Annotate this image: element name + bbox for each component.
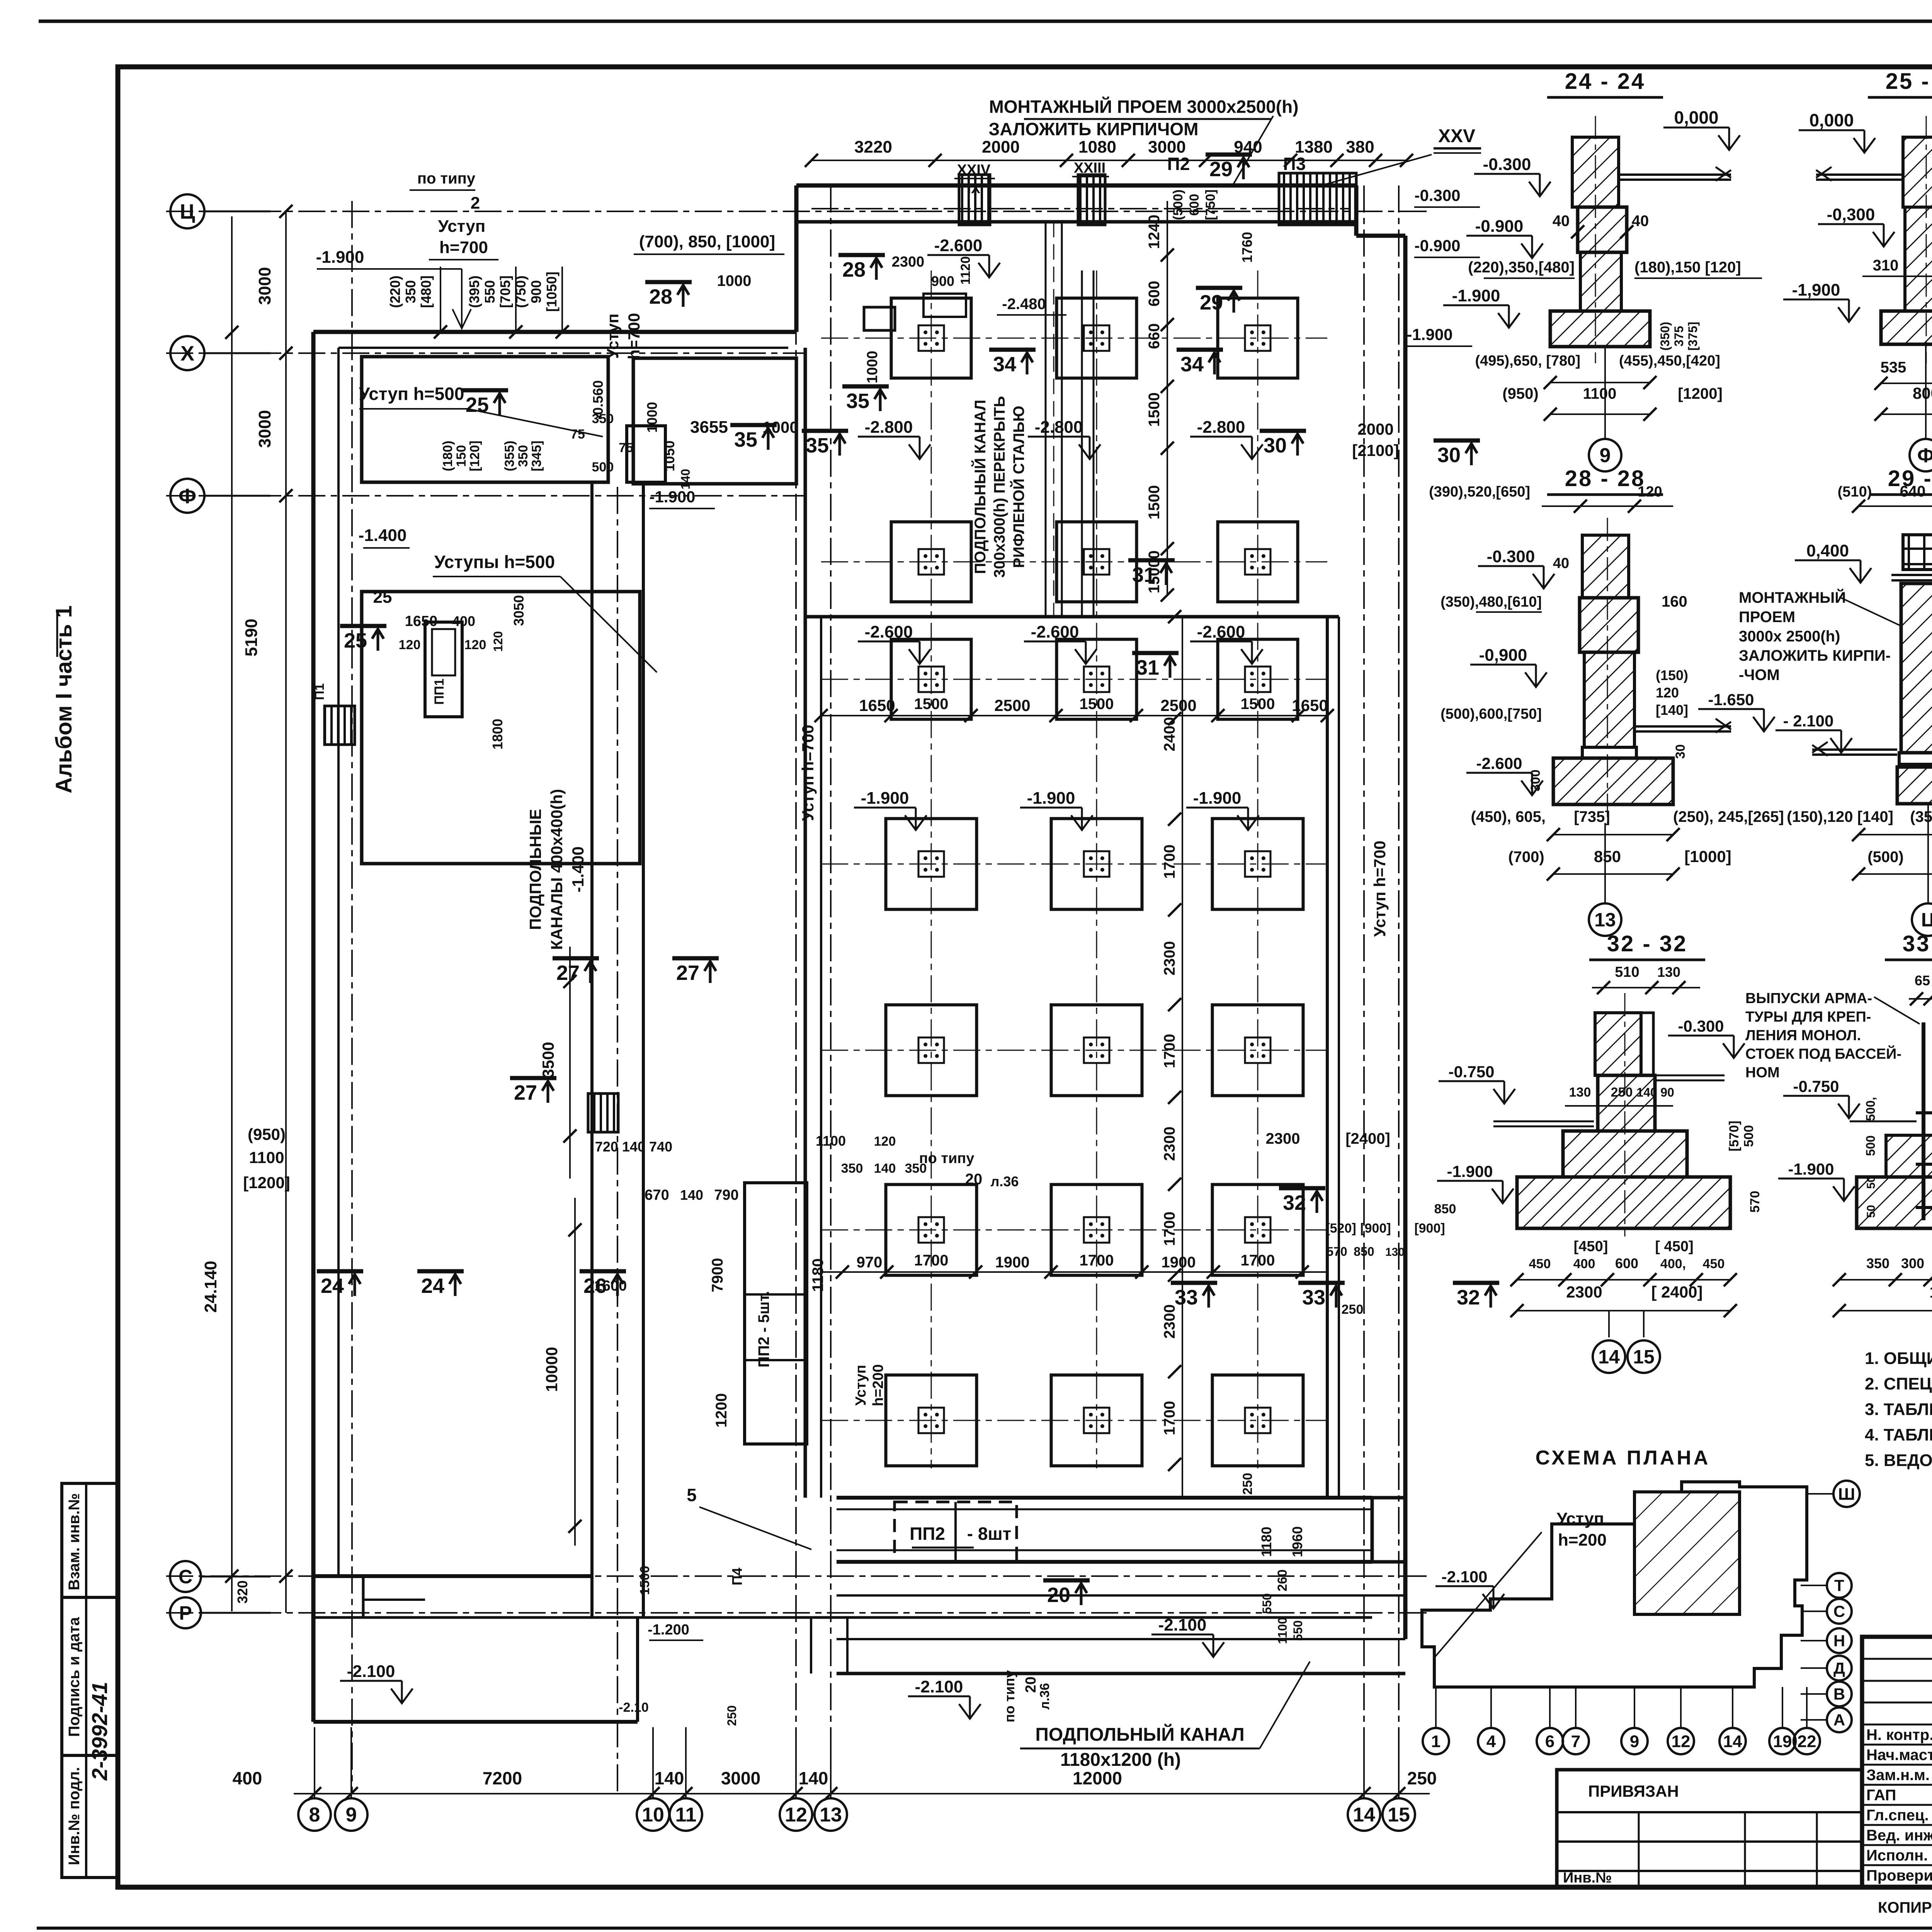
svg-text:МОНТАЖНЫЙ: МОНТАЖНЫЙ [1739,588,1846,606]
svg-text:(500): (500) [1171,189,1185,220]
svg-text:7200: 7200 [483,1768,522,1788]
svg-text:[375]: [375] [1686,322,1700,351]
svg-text:[570]: [570] [1727,1121,1742,1151]
svg-text:1700: 1700 [1929,1283,1932,1301]
s24 stem [1580,252,1621,311]
svg-text:(950): (950) [248,1125,286,1143]
svg-text:120: 120 [491,631,505,651]
svg-text:РИФЛЕНОЙ СТАЛЬЮ: РИФЛЕНОЙ СТАЛЬЮ [1010,406,1027,568]
column footing row 5 col 3 [1213,1005,1303,1096]
svg-text:900: 900 [931,273,954,289]
svg-text:-0.560: -0.560 [590,380,606,420]
svg-text:С: С [179,1566,192,1588]
section mark 25 [340,626,386,652]
schema axis circle 6 [1537,1728,1563,1754]
column footing row 7 col 3 [1213,1375,1303,1466]
svg-text:28: 28 [649,285,672,308]
svg-text:Нач.маст.: Нач.маст. [1866,1747,1932,1764]
svg-text:400,: 400, [1660,1257,1686,1271]
svg-text:[1200]: [1200] [243,1173,290,1192]
svg-text:ПОДПОЛЬНЫЙ КАНАЛ: ПОДПОЛЬНЫЙ КАНАЛ [1035,1724,1244,1745]
axis circle С [170,1561,201,1592]
section mark 20 [1043,1580,1090,1607]
PP2-8sht block [895,1502,1017,1562]
axis circle 9 [335,1798,367,1831]
svg-text:535: 535 [1881,359,1906,376]
s25 wall upper [1903,137,1932,207]
column footing row 1 col 1 [891,298,971,378]
svg-text:2: 2 [471,194,480,213]
svg-text:600: 600 [1615,1255,1638,1271]
svg-text:1650: 1650 [405,613,438,629]
svg-text:(180),150 [120]: (180),150 [120] [1634,259,1741,276]
svg-text:40: 40 [1553,213,1570,230]
svg-text:Альбом I часть 1: Альбом I часть 1 [51,605,77,794]
axis circle 8 [298,1798,331,1831]
svg-text:250: 250 [1240,1473,1255,1495]
svg-text:1700: 1700 [914,1252,949,1269]
s29 big wall [1901,583,1932,753]
svg-text:250: 250 [1611,1085,1633,1100]
s32 pier [1598,1075,1655,1131]
svg-text:В: В [1833,1685,1845,1703]
svg-text:А: А [1833,1711,1845,1729]
schema axis circle 1 [1423,1728,1449,1754]
svg-text:Н. контр.: Н. контр. [1866,1726,1932,1743]
svg-text:850: 850 [1354,1245,1374,1259]
schema axis circle 19 [1769,1728,1796,1754]
schema plana hatched block [1634,1492,1740,1614]
svg-text:1900: 1900 [1162,1254,1196,1271]
corridor walls [590,483,594,1617]
axis circle 12 [780,1798,812,1831]
svg-text:Инв.№ подл.: Инв.№ подл. [66,1767,83,1865]
column footing row 2 col 3 [1218,522,1298,602]
svg-text:1240: 1240 [1146,215,1163,249]
svg-text:140: 140 [680,1187,703,1203]
svg-text:(450), 605,: (450), 605, [1471,808,1546,825]
svg-text:Ц: Ц [1921,909,1932,931]
svg-text:h=700: h=700 [439,238,488,257]
svg-text:(390),520,[650]: (390),520,[650] [1429,484,1530,500]
svg-text:150: 150 [454,445,469,467]
schema plana outline [1422,1482,1807,1687]
section mark 27 [553,958,599,985]
svg-text:15: 15 [1388,1804,1410,1826]
column footing row 4 col 2 [1051,819,1142,910]
svg-text:П3: П3 [1283,154,1306,174]
svg-text:0,400: 0,400 [1806,541,1849,560]
svg-text:550: 550 [482,280,498,303]
svg-text:40: 40 [1553,555,1569,571]
svg-text:-1.900: -1.900 [1193,789,1242,808]
section mark 26 [580,1271,626,1298]
svg-text:450: 450 [1529,1257,1551,1271]
svg-text:4. ТАБЛИЦУ ОТВ. СМ. Л. 34-36: 4. ТАБЛИЦУ ОТВ. СМ. Л. 34-36 [1865,1425,1932,1444]
axis circle Ц [170,194,204,228]
schema axis circle Т [1827,1573,1852,1598]
svg-text:3655: 3655 [690,418,728,437]
svg-text:500,: 500, [1864,1097,1878,1121]
svg-text:50: 50 [1865,1176,1878,1189]
sheet top trim line [39,20,1932,23]
column footing row 5 col 2 [1051,1005,1142,1096]
svg-text:-1.900: -1.900 [1452,286,1500,305]
svg-text:1200: 1200 [713,1393,730,1428]
svg-text:2300: 2300 [892,254,925,270]
svg-text:310: 310 [1873,257,1899,274]
section mark 33 [1298,1283,1345,1309]
svg-text:10: 10 [642,1804,664,1826]
svg-text:28 - 28: 28 - 28 [1565,466,1646,491]
svg-text:МОНТАЖНЫЙ ПРОЕМ 3000х2500(h): МОНТАЖНЫЙ ПРОЕМ 3000х2500(h) [989,97,1298,117]
svg-text:600: 600 [1146,281,1163,307]
column footing row 3 col 3 [1218,639,1298,719]
svg-text:160: 160 [1662,593,1687,610]
svg-text:27: 27 [514,1081,537,1104]
section mark 31 [1132,653,1179,679]
svg-text:1500: 1500 [1241,696,1275,713]
svg-text:2300: 2300 [1161,941,1178,976]
svg-text:h=200: h=200 [870,1364,886,1406]
column footing row 3 col 2 [1057,639,1137,719]
svg-text:2300: 2300 [1161,1304,1178,1339]
svg-text:1050: 1050 [662,440,677,471]
section mark 32 [1453,1283,1499,1309]
section mark 27 [672,958,719,985]
svg-text:3500: 3500 [539,1042,557,1078]
svg-text:-1.650: -1.650 [1708,690,1754,709]
svg-text:-0.900: -0.900 [1414,236,1460,255]
svg-text:h=200: h=200 [1558,1531,1607,1549]
svg-text:50: 50 [1865,1205,1878,1218]
svg-text:XXIII: XXIII [1074,160,1105,176]
svg-text:1120: 1120 [958,256,973,285]
svg-text:120: 120 [874,1134,896,1149]
svg-text:35: 35 [846,389,869,413]
sidebar stamp boxes [62,1483,119,1878]
svg-text:3. ТАБЛИЦУ РАСЧЕТНЫХ НАГРУЗОК: 3. ТАБЛИЦУ РАСЧЕТНЫХ НАГРУЗОК СМ.Л.39 [1865,1400,1932,1419]
svg-text:5190: 5190 [242,619,261,656]
axis circle 10 [637,1798,669,1831]
svg-text:34: 34 [993,353,1016,376]
schema axis circle В [1827,1682,1852,1706]
svg-text:25 - 25: 25 - 25 [1886,69,1932,94]
svg-text:2300: 2300 [1266,1130,1300,1147]
svg-text:XXIV: XXIV [957,162,991,178]
column footing row 3 col 1 [891,639,971,719]
svg-text:35: 35 [734,428,757,451]
svg-text:СХЕМА ПЛАНА: СХЕМА ПЛАНА [1536,1447,1711,1469]
axis circle 14 [1348,1798,1380,1831]
svg-text:25: 25 [344,629,367,652]
svg-text:90: 90 [1660,1085,1674,1099]
svg-text:640: 640 [1900,483,1926,500]
svg-text:300: 300 [1901,1255,1924,1271]
svg-text:[900]: [900] [1360,1221,1391,1236]
svg-text:-0.750: -0.750 [1793,1077,1839,1095]
svg-text:3050: 3050 [511,595,527,626]
svg-text:550: 550 [1291,1620,1305,1641]
svg-text:24.140: 24.140 [201,1261,220,1313]
svg-text:350: 350 [516,445,531,467]
svg-text:Подпись и дата: Подпись и дата [66,1617,83,1737]
PP1 element [425,622,462,717]
svg-text:850: 850 [1594,847,1621,866]
svg-text:9: 9 [1600,444,1611,467]
svg-text:Уступ h=700: Уступ h=700 [1371,840,1389,937]
schema axis circle 22 [1794,1728,1820,1754]
svg-text:2300: 2300 [1566,1283,1602,1301]
svg-text:5. ВЕДОМОСТЬ ПЕРЕМЫЧЕК СМ. Л.: 5. ВЕДОМОСТЬ ПЕРЕМЫЧЕК СМ. Л. 39 [1865,1451,1932,1470]
svg-text:1180: 1180 [810,1259,827,1292]
svg-text:(150),120 [140]: (150),120 [140] [1787,808,1893,825]
s25 stem [1905,207,1932,311]
svg-text:(500): (500) [1867,849,1903,866]
bottom trim line [37,1927,1932,1930]
svg-text:-2.600: -2.600 [1476,754,1522,772]
svg-text:33: 33 [1302,1286,1325,1309]
svg-text:12: 12 [785,1804,807,1826]
schema axis circle Н [1827,1628,1852,1653]
svg-text:[140]: [140] [1656,702,1688,718]
svg-text:(220): (220) [387,276,403,308]
svg-text:30: 30 [1673,744,1688,759]
svg-text:550: 550 [1260,1593,1274,1614]
svg-text:[2100]: [2100] [1352,441,1399,459]
svg-text:2000: 2000 [982,138,1020,156]
svg-text:20: 20 [965,1171,983,1188]
svg-text:(950): (950) [1502,385,1538,402]
section mark 27 [510,1078,556,1104]
svg-text:19: 19 [1773,1732,1792,1751]
svg-text:400: 400 [233,1768,262,1788]
s33 rebar pins [1922,1022,1925,1220]
svg-text:С: С [1833,1602,1845,1621]
svg-text:25: 25 [373,588,392,607]
schema axis circle 9 [1621,1728,1648,1754]
svg-text:-1.900: -1.900 [1788,1160,1834,1178]
svg-text:Р: Р [179,1602,192,1624]
svg-text:1900: 1900 [995,1254,1030,1271]
axis circle Р [170,1597,201,1628]
svg-text:1960: 1960 [1289,1526,1305,1557]
svg-text:1500: 1500 [914,696,949,713]
s32 step [1563,1131,1687,1177]
column footing row 6 col 2 [1051,1185,1142,1276]
svg-text:1000: 1000 [864,351,881,384]
lower canal walls [837,1638,1405,1640]
svg-text:1650: 1650 [1292,696,1328,714]
svg-text:1000: 1000 [644,402,660,433]
s28 plate [1582,747,1636,758]
axis lines horizontal [166,211,1430,212]
column footing row 6 col 3 [1213,1185,1303,1276]
svg-text:1700: 1700 [1080,1252,1114,1269]
svg-text:-0.900: -0.900 [1475,217,1524,236]
svg-text:32 - 32: 32 - 32 [1607,931,1688,956]
svg-text:570: 570 [1327,1245,1347,1259]
svg-text:-2.800: -2.800 [1035,418,1083,437]
svg-text:Исполн.: Исполн. [1866,1847,1928,1864]
svg-text:Уступ: Уступ [853,1365,869,1406]
middle vertical canal lines [1045,222,1047,617]
svg-text:7: 7 [1571,1732,1580,1751]
svg-text:13: 13 [820,1804,842,1826]
svg-text:Уступ h=500: Уступ h=500 [359,384,464,404]
svg-text:-0.300: -0.300 [1487,547,1535,566]
s24 wall upper [1572,137,1619,207]
svg-text:-1.900: -1.900 [1447,1162,1493,1180]
bottom dimension chain [294,1793,1430,1794]
svg-text:570: 570 [1748,1191,1762,1213]
svg-text:32: 32 [1457,1286,1480,1309]
small shaft -0.560 [627,426,665,482]
opening XXI hatched [325,706,355,745]
svg-text:[1050]: [1050] [544,272,560,312]
svg-text:Уступ: Уступ [1557,1509,1604,1528]
svg-text:(510): (510) [1838,484,1872,500]
svg-text:-0,900: -0,900 [1479,646,1527,665]
openings in top wall [959,175,990,225]
svg-text:24: 24 [321,1274,344,1298]
svg-text:Ц: Ц [180,200,195,223]
svg-text:5: 5 [687,1485,697,1505]
svg-text:Д: Д [1833,1659,1845,1677]
svg-text:-1.900: -1.900 [1027,789,1075,808]
title block outer [1862,1637,1932,1887]
svg-text:1700: 1700 [1161,1034,1178,1068]
section mark 33 [1171,1283,1217,1309]
section mark 32 [1279,1188,1325,1214]
svg-text:-2.600: -2.600 [934,236,983,255]
middle block right wall [1326,617,1329,1498]
schema axis circle С [1827,1599,1852,1624]
svg-text:1700: 1700 [1241,1252,1275,1269]
svg-text:500: 500 [1864,1135,1878,1156]
svg-text:2-3992-41: 2-3992-41 [87,1682,112,1781]
s33 footing upper [1886,1135,1932,1177]
svg-text:1760: 1760 [1239,232,1255,263]
svg-text:320: 320 [235,1580,250,1604]
svg-text:14: 14 [1723,1732,1742,1751]
svg-text:Уступ h=700: Уступ h=700 [799,724,817,821]
axis circle 13 [815,1798,847,1831]
svg-text:-0.300: -0.300 [1483,155,1531,174]
svg-text:[1000]: [1000] [1684,847,1731,866]
svg-text:660: 660 [1146,323,1163,349]
section mark 35 [802,431,848,457]
section mark 31 [1128,560,1175,587]
s24 footing slab [1550,311,1650,347]
svg-text:9: 9 [346,1804,357,1826]
svg-text:[480]: [480] [418,276,434,308]
opening XXII hatched [588,1094,618,1132]
svg-text:27: 27 [556,961,580,985]
svg-text:-2.100: -2.100 [1158,1616,1207,1634]
svg-text:-2.100: -2.100 [347,1662,395,1681]
svg-text:л.36: л.36 [1037,1683,1052,1710]
svg-text:СТОЕК ПОД БАССЕЙ-: СТОЕК ПОД БАССЕЙ- [1745,1045,1901,1062]
svg-text:1500: 1500 [1146,393,1163,427]
svg-text:-2.100: -2.100 [1441,1568,1487,1586]
svg-text:33 - 33: 33 - 33 [1903,931,1932,956]
svg-text:40: 40 [1632,213,1649,230]
middle block top wall [805,615,1339,619]
svg-text:26: 26 [583,1274,607,1298]
svg-text:ГАП: ГАП [1866,1787,1896,1804]
svg-text:12: 12 [1672,1732,1690,1751]
svg-text:(220),350,[480]: (220),350,[480] [1468,259,1575,276]
svg-text:3000: 3000 [255,410,274,448]
svg-text:24 - 24: 24 - 24 [1565,69,1646,94]
section mark 34 [989,350,1036,376]
privyazan block [1557,1770,1862,1887]
upper-left rooms [362,357,608,482]
svg-text:(500),600,[750]: (500),600,[750] [1440,706,1542,722]
svg-text:-1.400: -1.400 [569,846,587,892]
svg-text:Зам.н.м.: Зам.н.м. [1866,1767,1930,1784]
title block left grid [1862,1658,1932,1660]
svg-text:Ш: Ш [1838,1485,1855,1503]
svg-text:250: 250 [1407,1768,1437,1788]
svg-text:7900: 7900 [709,1258,726,1293]
svg-text:14: 14 [1598,1346,1620,1368]
s24 pier [1578,207,1627,252]
leader lines from усту labels [468,409,603,437]
svg-text:140: 140 [874,1161,896,1176]
section mark 24 [417,1271,464,1298]
svg-text:300: 300 [1528,770,1543,792]
svg-text:3000х 2500(h): 3000х 2500(h) [1739,628,1840,645]
svg-text:140: 140 [1636,1085,1657,1099]
svg-text:(700), 850, [1000]: (700), 850, [1000] [639,232,775,251]
svg-text:ПРОЕМ: ПРОЕМ [1739,609,1795,626]
svg-text:Проверил: Проверил [1866,1867,1932,1884]
section mark 30 [1260,431,1306,457]
svg-text:П1: П1 [312,683,327,700]
svg-text:350: 350 [403,280,418,303]
svg-text:-0.300: -0.300 [1414,186,1460,204]
svg-text:ТУРЫ ДЛЯ КРЕП-: ТУРЫ ДЛЯ КРЕП- [1745,1009,1871,1025]
svg-text:850: 850 [1434,1202,1456,1216]
svg-text:-2.480: -2.480 [1002,296,1046,313]
svg-text:10000: 10000 [543,1347,561,1392]
svg-text:Х: Х [180,342,194,365]
svg-text:(350): (350) [1658,322,1672,351]
svg-text:[450]: [450] [1574,1238,1608,1255]
svg-text:ПП2 - 5шт.: ПП2 - 5шт. [755,1291,772,1367]
column footing row 6 col 1 [886,1185,977,1276]
svg-text:-0.300: -0.300 [1678,1017,1724,1035]
svg-text:75: 75 [619,440,633,455]
axis circle Ф [170,479,204,513]
svg-text:1700: 1700 [1161,1401,1178,1435]
svg-text:22: 22 [1798,1732,1816,1751]
column footing row 1 col 3 [1218,298,1298,378]
svg-text:-1.900: -1.900 [649,488,695,506]
svg-text:- 8шт: - 8шт [967,1524,1012,1544]
svg-text:-ЧОМ: -ЧОМ [1739,667,1780,684]
svg-text:12000: 12000 [1073,1768,1122,1788]
svg-text:[735]: [735] [1574,808,1610,825]
svg-text:(495),650, [780]: (495),650, [780] [1475,353,1581,369]
svg-text:[705]: [705] [497,276,513,308]
svg-text:П2: П2 [1167,154,1190,174]
svg-text:120: 120 [1656,685,1679,701]
svg-text:75: 75 [570,427,585,442]
svg-text:140: 140 [679,469,692,489]
